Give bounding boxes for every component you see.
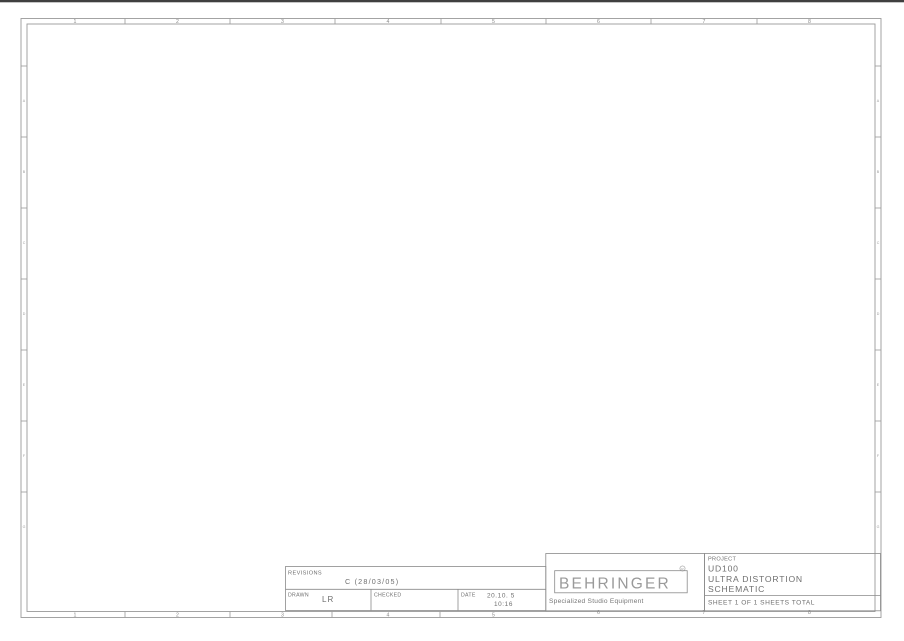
svg-text:20.10. 5: 20.10. 5: [487, 593, 515, 600]
svg-text:5: 5: [492, 612, 495, 618]
svg-text:CHECKED: CHECKED: [374, 593, 401, 599]
svg-text:REVISIONS: REVISIONS: [288, 571, 322, 577]
svg-text:G: G: [23, 525, 26, 529]
svg-text:3: 3: [281, 612, 284, 618]
svg-text:1: 1: [74, 612, 77, 618]
title block behringer logo box: [546, 554, 705, 611]
svg-text:2: 2: [176, 19, 179, 25]
svg-text:4: 4: [387, 612, 390, 618]
svg-text:C: C: [877, 241, 880, 245]
svg-text:5: 5: [492, 19, 495, 25]
svg-text:LR: LR: [322, 595, 334, 604]
svg-text:8: 8: [808, 19, 811, 25]
svg-text:2: 2: [176, 612, 179, 618]
svg-text:3: 3: [281, 19, 284, 25]
svg-text:G: G: [877, 525, 880, 529]
svg-text:ULTRA DISTORTION: ULTRA DISTORTION: [708, 574, 803, 584]
svg-text:DRAWN: DRAWN: [288, 593, 309, 599]
title block project box: [705, 554, 881, 611]
svg-text:1: 1: [74, 19, 77, 25]
svg-text:D: D: [23, 312, 26, 316]
svg-text:DATE: DATE: [461, 593, 476, 599]
border frame: [0, 0, 904, 2]
svg-text:SHEET 1 OF 1 SHEETS TOTAL: SHEET 1 OF 1 SHEETS TOTAL: [708, 600, 815, 607]
svg-text:C: C: [23, 241, 26, 245]
svg-text:Specialized Studio Equipment: Specialized Studio Equipment: [549, 598, 644, 605]
title block revisions box: [286, 567, 546, 611]
svg-text:6: 6: [597, 19, 600, 25]
svg-text:7: 7: [703, 19, 706, 25]
svg-text:4: 4: [387, 19, 390, 25]
svg-text:C (28/03/05): C (28/03/05): [345, 577, 399, 586]
svg-text:SCHEMATIC: SCHEMATIC: [708, 584, 765, 594]
svg-text:PROJECT: PROJECT: [708, 557, 736, 563]
svg-text:D: D: [877, 312, 880, 316]
svg-text:BEHRINGER: BEHRINGER: [559, 576, 671, 593]
svg-text:UD100: UD100: [708, 564, 739, 574]
svg-text:10:16: 10:16: [494, 601, 513, 608]
